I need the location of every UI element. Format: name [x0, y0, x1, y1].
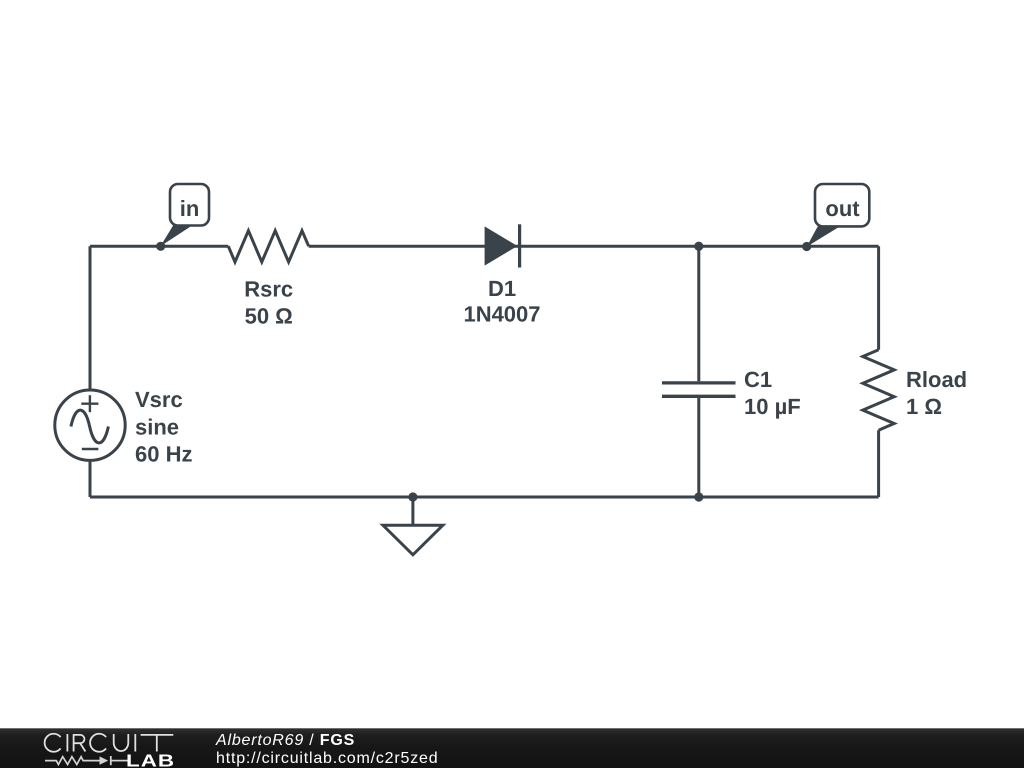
ground — [383, 497, 443, 555]
junction dot bottom C1 — [694, 492, 703, 501]
junction dot node out — [802, 242, 811, 251]
CircuitLab logo wordmark CIRCUIT — [40, 729, 180, 769]
svg-text:50 Ω: 50 Ω — [245, 304, 293, 329]
capacitor C1 — [662, 246, 736, 497]
wire top left segment — [90, 245, 228, 248]
node out flag — [807, 184, 870, 247]
footer author line — [216, 732, 355, 750]
label Rload value — [906, 367, 967, 419]
wire bottom — [90, 496, 879, 499]
footer bar — [0, 728, 1024, 768]
label C1 value — [744, 367, 801, 419]
svg-text:sine: sine — [135, 414, 179, 439]
wire left upper — [89, 246, 92, 390]
resistor Rload — [863, 350, 894, 430]
svg-text:C1: C1 — [744, 367, 772, 392]
wire top right segment — [309, 245, 879, 248]
junction dot ground — [408, 492, 417, 501]
svg-text:Rload: Rload — [906, 367, 967, 392]
svg-text:out: out — [825, 196, 860, 221]
svg-text:LAB: LAB — [126, 751, 175, 769]
label Vsrc value — [135, 387, 192, 466]
svg-text:in: in — [180, 196, 200, 221]
svg-text:Rsrc: Rsrc — [244, 277, 293, 302]
svg-text:1N4007: 1N4007 — [463, 302, 540, 327]
svg-text:D1: D1 — [488, 276, 516, 301]
footer url line — [216, 750, 438, 768]
wire right lower — [877, 430, 880, 497]
diode D1 — [485, 224, 522, 267]
node in flag — [160, 184, 209, 246]
CircuitLab logo squiggle — [45, 757, 128, 765]
resistor Rsrc — [228, 231, 308, 262]
svg-text:10 µF: 10 µF — [744, 394, 801, 419]
wire left lower — [89, 460, 92, 497]
junction dot node in — [156, 242, 165, 251]
svg-text:60 Hz: 60 Hz — [135, 442, 192, 467]
svg-text:Vsrc: Vsrc — [135, 387, 183, 412]
label D1 value — [463, 276, 540, 327]
junction dot top C1 — [694, 242, 703, 251]
voltage source Vsrc — [55, 390, 125, 460]
wire right upper — [877, 246, 880, 350]
svg-text:1 Ω: 1 Ω — [906, 394, 942, 419]
label Rsrc value — [244, 277, 293, 329]
